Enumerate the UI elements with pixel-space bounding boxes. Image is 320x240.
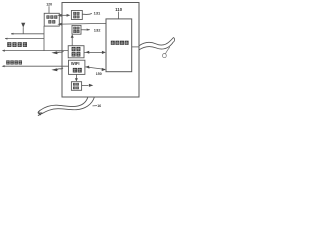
vertical from server box down <box>43 26 45 51</box>
remote server text <box>46 15 57 23</box>
cable tip curl <box>38 110 42 115</box>
svg-text:131: 131 <box>94 11 101 16</box>
lead line 110 <box>117 12 119 19</box>
remote server box 120 <box>44 13 59 26</box>
arrow server to uP <box>61 22 106 25</box>
svg-text:150: 150 <box>96 72 102 76</box>
cable label lead <box>93 105 98 107</box>
box C text <box>72 47 81 57</box>
arrow D down to E <box>75 74 77 78</box>
svg-text:WIFI: WIFI <box>71 61 80 66</box>
wire C to uP <box>84 51 104 53</box>
wireless network label <box>6 60 22 64</box>
double arrow server to boxA <box>60 14 69 16</box>
box D wifi <box>69 60 85 74</box>
wire uP to right ribbon <box>132 46 139 48</box>
battery wire <box>3 50 68 52</box>
ribbon tail loop <box>163 54 167 58</box>
ribbon hook <box>174 37 175 41</box>
mains line 1 <box>11 33 44 35</box>
lead to 131 <box>82 13 92 14</box>
svg-text:120: 120 <box>46 3 52 7</box>
bottom cable lower line <box>42 97 95 113</box>
big outer box <box>62 3 139 98</box>
lead line 120 <box>48 6 50 13</box>
box B <box>72 25 81 34</box>
box E text <box>73 83 79 89</box>
svg-text:16: 16 <box>97 104 101 108</box>
lead to 132 <box>81 29 90 31</box>
svg-text:132: 132 <box>94 28 101 33</box>
bottom cable upper line <box>40 97 88 110</box>
box A text <box>73 12 79 18</box>
wavy arrow network row <box>56 68 63 70</box>
right ribbon lower <box>139 42 174 50</box>
box C <box>68 46 84 58</box>
wavy arrow battery row <box>57 51 64 53</box>
wavy arrow from E right <box>82 84 89 86</box>
mains line 2 <box>5 38 44 40</box>
box E <box>71 82 81 91</box>
microprocessor box 110 <box>106 19 132 72</box>
box A <box>71 11 82 20</box>
text microprocessor <box>111 41 129 45</box>
ribbon tail line <box>166 47 170 54</box>
battery label text <box>7 42 27 47</box>
wire D to uP double arrow <box>86 67 106 70</box>
network wire <box>3 65 69 67</box>
down arrow onto line1 <box>21 23 25 28</box>
arrow C up to B <box>71 37 73 46</box>
box B text <box>73 27 79 33</box>
right ribbon upper <box>139 37 174 45</box>
svg-text:110: 110 <box>115 7 122 12</box>
